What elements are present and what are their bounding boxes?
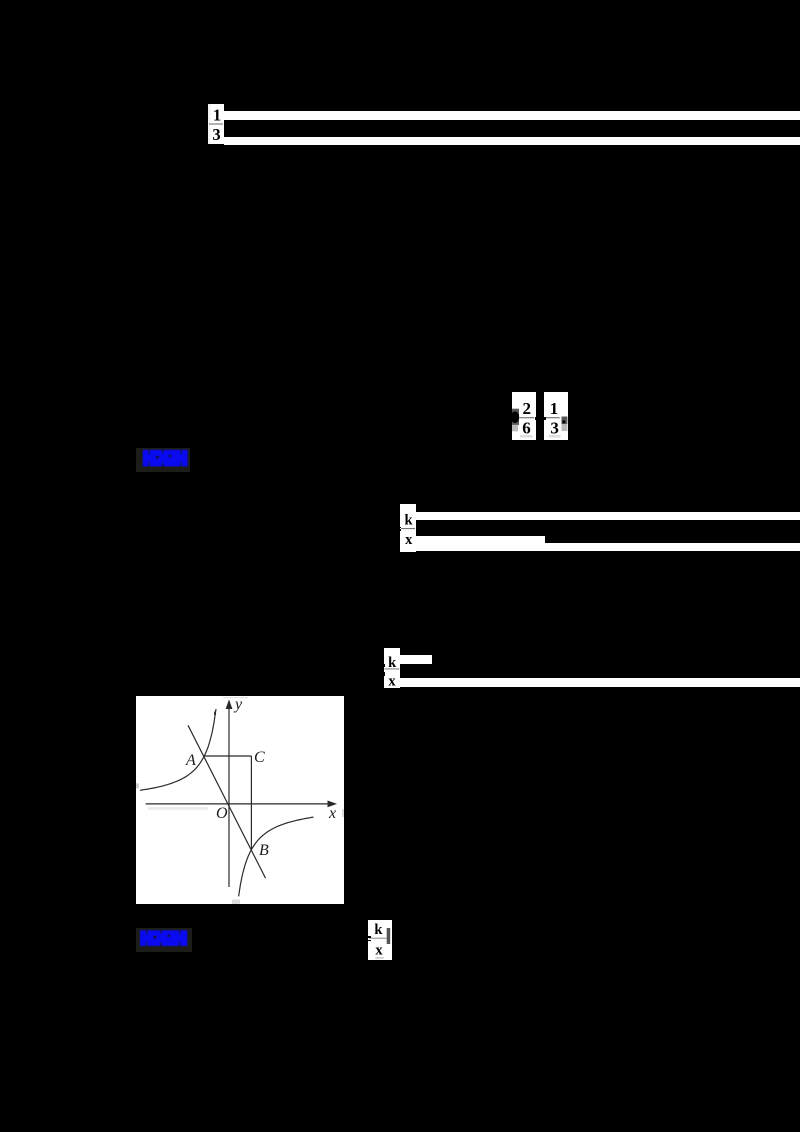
svg-text:1: 1 [213, 106, 221, 125]
svg-text:O: O [216, 805, 228, 822]
svg-text:k: k [405, 513, 414, 529]
svg-text:2: 2 [522, 399, 531, 418]
svg-text:6: 6 [522, 419, 531, 438]
svg-text:x: x [388, 673, 396, 688]
svg-text:C: C [254, 749, 265, 766]
svg-text:B: B [259, 842, 269, 859]
svg-text:A: A [185, 752, 196, 769]
svg-text:3: 3 [212, 125, 220, 144]
svg-text:x: x [375, 943, 383, 959]
svg-text:x: x [405, 532, 413, 548]
svg-text:1: 1 [550, 399, 559, 418]
svg-text:y: y [233, 696, 243, 713]
svg-text:k: k [388, 655, 397, 671]
svg-text:k: k [374, 922, 383, 938]
svg-text:x: x [328, 805, 336, 822]
svg-text:3: 3 [550, 419, 559, 438]
